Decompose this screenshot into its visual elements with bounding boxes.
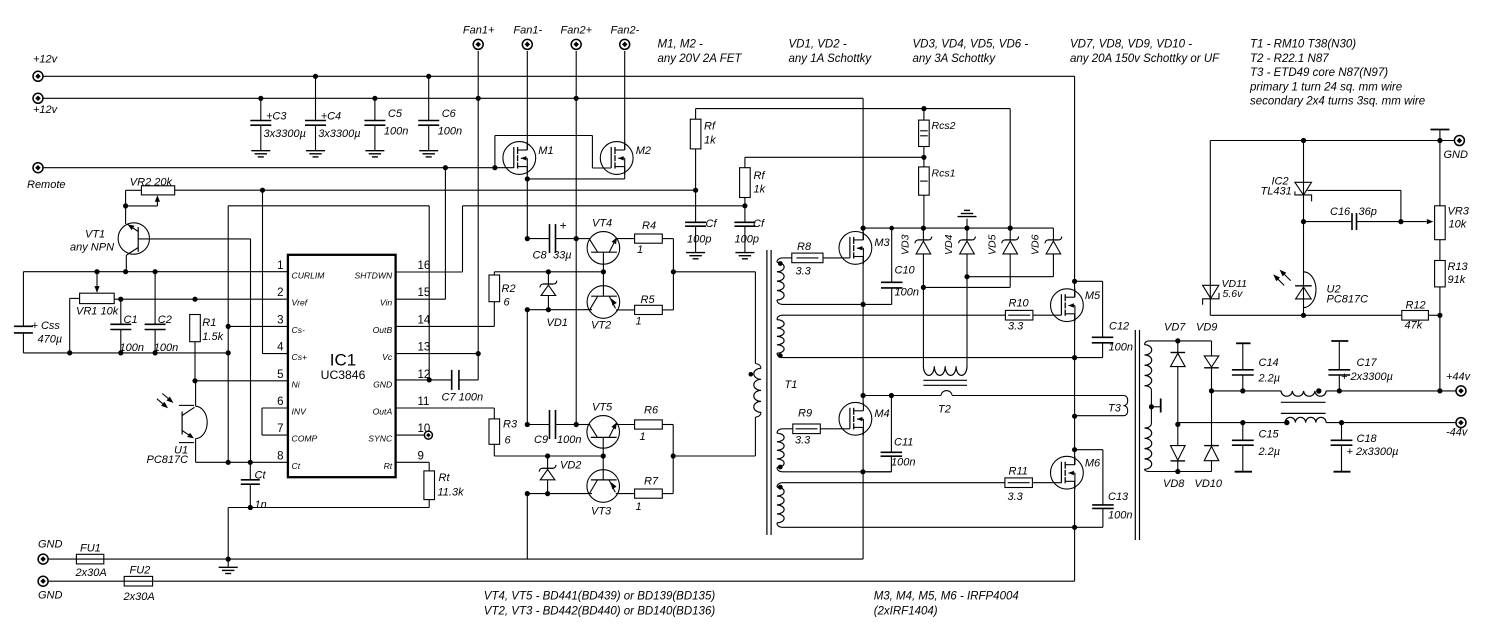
capacitor C9 100n	[549, 410, 551, 439]
svg-text:VR3: VR3	[1448, 206, 1470, 218]
svg-text:1: 1	[636, 316, 642, 328]
wire VD9 cathode	[1211, 368, 1213, 391]
wire Fan1- to M1 drain	[526, 51, 528, 150]
wire M4 source to GND rail	[862, 472, 864, 559]
terminal GND (FU1)	[38, 554, 48, 564]
node VR3 top on top rail	[1437, 138, 1442, 143]
optocoupler U1 PC817C	[195, 381, 197, 407]
wire w3 bottom rail	[782, 471, 891, 473]
svg-text:VD7: VD7	[1164, 322, 1186, 334]
svg-text:R13: R13	[1448, 261, 1469, 273]
wire R10 to M5 gate	[1033, 314, 1062, 316]
svg-text:100n: 100n	[895, 287, 919, 299]
node C14 bottom	[1240, 388, 1245, 393]
wire VR2 wiper	[156, 201, 158, 206]
svg-text:R8: R8	[797, 241, 812, 253]
svg-text:T2 - R22.1 N87: T2 - R22.1 N87	[1250, 53, 1329, 65]
node C8 left (M source)	[525, 236, 530, 241]
node VD1 anode	[546, 307, 551, 312]
svg-text:11: 11	[418, 396, 430, 408]
wire w2 bottom rail (M5 source)	[782, 357, 1103, 359]
wire pin 10 SYNC	[396, 434, 425, 436]
wire C9 right	[556, 424, 577, 426]
diode VD5 (schottky)	[1009, 228, 1011, 240]
capacitor C2 100n	[154, 272, 156, 325]
svg-text:5: 5	[277, 369, 283, 381]
wire driver B output to T1	[673, 455, 755, 457]
svg-text:+: +	[560, 219, 567, 233]
transformer T3 secondary winding (lower half)	[1145, 423, 1152, 428]
diode VD10	[1211, 391, 1213, 446]
node C9 right / VT5 collector	[574, 422, 579, 427]
wire Ni rail (pin 5)	[195, 380, 288, 382]
transistor VT3	[587, 470, 620, 503]
wire VR1 wiper from CURLIM	[96, 272, 98, 292]
svg-text:1k: 1k	[704, 135, 716, 147]
wire M source column to GND rail	[526, 494, 528, 559]
IC IC2 TL431	[1303, 141, 1305, 222]
svg-text:C14: C14	[1259, 357, 1279, 369]
wire Fan2+ drop	[575, 51, 577, 98]
wire M source column down	[526, 179, 528, 239]
svg-text:M2: M2	[636, 145, 651, 157]
svg-text:1: 1	[640, 431, 646, 443]
svg-text:VD4: VD4	[943, 234, 955, 255]
wire R6 right	[662, 424, 673, 426]
inductor L1 (top choke winding)	[1281, 391, 1326, 396]
svg-text:T3: T3	[1108, 403, 1122, 415]
svg-text:C5: C5	[388, 108, 403, 120]
wire M6 source to GND2 rail	[1074, 527, 1076, 581]
svg-text:+ 2x3300µ: + 2x3300µ	[1347, 446, 1399, 458]
diode VD11 zener 5.6v	[1209, 141, 1211, 316]
svg-text:3.3: 3.3	[795, 435, 811, 447]
diode VD9	[1211, 341, 1213, 356]
svg-text:PC817C: PC817C	[1327, 294, 1369, 306]
svg-text:C15: C15	[1259, 429, 1280, 441]
svg-text:C6: C6	[442, 108, 457, 120]
wire VD10 anode	[1211, 461, 1213, 472]
resistor R10 3.3	[1005, 310, 1033, 320]
svg-text:R4: R4	[642, 220, 656, 232]
diode VD1 (schottky)	[547, 272, 549, 284]
svg-text:+C3: +C3	[266, 111, 287, 123]
svg-text:M5: M5	[1085, 290, 1101, 302]
capacitor Ct 1n	[249, 462, 251, 480]
wire VD7 anode	[1177, 367, 1179, 425]
svg-text:6: 6	[277, 396, 283, 408]
transformer T1 secondary winding 4	[777, 483, 782, 487]
node C9 left	[525, 422, 530, 427]
svg-text:any 20A 150v Schottky or UF: any 20A 150v Schottky or UF	[1070, 53, 1220, 65]
resistor R13 91k	[1435, 261, 1446, 287]
diode VD7	[1177, 341, 1179, 353]
svg-text:TL431: TL431	[1261, 186, 1292, 198]
node Rf1 / Cf1	[693, 188, 698, 193]
resistor R6 1	[635, 420, 663, 429]
capacitor C5	[374, 98, 376, 120]
svg-text:M1, M2 -: M1, M2 -	[658, 39, 704, 51]
node M3 source	[861, 302, 866, 307]
node VD8 bottom	[1175, 469, 1180, 474]
capacitor C18 2x3300u	[1341, 423, 1343, 441]
svg-text:VD3: VD3	[900, 234, 912, 255]
resistor Rf 1k (first)	[695, 109, 697, 120]
capacitor C17 2x3300u	[1331, 340, 1348, 342]
capacitor C10 100n	[891, 228, 893, 282]
svg-text:M3: M3	[874, 237, 890, 249]
wire T3 column to M6 drain	[1074, 416, 1076, 450]
svg-text:VD8: VD8	[1163, 478, 1185, 490]
node VD3/VD5 anode rail	[921, 285, 926, 290]
wire T2 primary rail / M4 drain	[863, 395, 941, 397]
transistor M6	[1051, 456, 1084, 489]
node T1 primary phase dot	[749, 372, 754, 377]
svg-text:R10: R10	[1009, 298, 1030, 310]
node M4 drain	[861, 393, 866, 398]
svg-text:FU1: FU1	[80, 543, 101, 555]
diode VD6 (schottky)	[1052, 228, 1054, 240]
svg-text:1: 1	[637, 244, 643, 256]
resistor R12 47k	[1402, 311, 1429, 321]
svg-text:7: 7	[277, 423, 283, 435]
resistor R7 1	[635, 489, 663, 498]
wire R5 right	[662, 309, 673, 311]
svg-text:FU2: FU2	[130, 565, 151, 577]
capacitor Cf 100p (second)	[744, 206, 746, 223]
inductor L2 (bottom choke winding)	[1285, 417, 1326, 422]
resistor Rcs1	[919, 167, 930, 195]
wire VR2 right rail	[175, 189, 696, 191]
svg-text:2.2µ: 2.2µ	[1258, 373, 1281, 385]
transistor M3	[839, 232, 872, 265]
wire +12v top rail	[43, 75, 1074, 77]
svg-text:any 20V 2A FET: any 20V 2A FET	[658, 53, 743, 65]
wire VR3 wiper	[1401, 221, 1427, 223]
node driver A output	[671, 269, 676, 274]
svg-text:1k: 1k	[754, 184, 766, 196]
optocoupler U2 PC817C (LED)	[1295, 285, 1312, 287]
wire VD3 to T2	[922, 254, 924, 366]
svg-text:36p: 36p	[1359, 206, 1377, 218]
svg-text:+ 2x3300µ: + 2x3300µ	[1341, 371, 1393, 383]
capacitor C11 100n	[890, 396, 892, 453]
node soft-start rail to Cs column	[226, 350, 231, 355]
node Rcs2 top	[921, 106, 926, 111]
node C2 on CURLIM rail	[153, 269, 158, 274]
svg-text:IC1: IC1	[330, 351, 356, 370]
svg-text:any 1A Schottky: any 1A Schottky	[789, 53, 873, 65]
svg-text:T2: T2	[938, 404, 951, 416]
node +12v rail junctions	[313, 74, 318, 79]
transistor M2 (fan FET)	[600, 142, 633, 175]
node C15 top	[1240, 420, 1245, 425]
resistor R1 1.5k	[190, 315, 201, 342]
capacitor C12 100n	[1092, 336, 1114, 338]
svg-text:+C4: +C4	[321, 111, 342, 123]
transistor M4	[839, 402, 872, 435]
svg-text:VD10: VD10	[1195, 478, 1223, 490]
resistor R5 1	[635, 305, 663, 314]
svg-text:primary 1 turn 24 sq. mm wire: primary 1 turn 24 sq. mm wire	[1249, 81, 1402, 93]
svg-text:C9: C9	[534, 434, 548, 446]
inductor core	[1281, 401, 1326, 403]
svg-text:10k: 10k	[1449, 219, 1467, 231]
diode VD2 (schottky)	[547, 456, 549, 468]
node Cs column end	[226, 460, 231, 465]
wire base rail A	[494, 271, 603, 273]
transformer T3 secondary winding (upper half)	[1145, 341, 1149, 345]
svg-text:Remote: Remote	[27, 179, 66, 191]
transformer T1 primary winding	[754, 272, 756, 364]
svg-text:VR1 10k: VR1 10k	[76, 306, 119, 318]
svg-text:R5: R5	[641, 294, 656, 306]
transformer T1 secondary winding 2	[777, 315, 782, 319]
wire feedback bottom rail	[1210, 314, 1402, 316]
svg-text:R2: R2	[502, 283, 516, 295]
svg-text:100p: 100p	[735, 234, 759, 246]
wire ground drop to GND rail	[227, 508, 229, 560]
node C16 right / ref	[1398, 219, 1403, 224]
wire Fan1+ drop	[477, 51, 479, 98]
wire Remote rail	[43, 167, 514, 169]
wire C7/GND column	[428, 206, 430, 380]
svg-text:(2xIRF1404): (2xIRF1404)	[874, 606, 938, 618]
wire T3 secondary mid link	[1150, 390, 1152, 423]
svg-text:VD6: VD6	[1030, 234, 1042, 255]
svg-text:VD1: VD1	[547, 317, 568, 329]
svg-text:14: 14	[418, 314, 431, 326]
node C8 right / VT4 collector	[574, 236, 579, 241]
svg-text:C2: C2	[158, 314, 172, 326]
transistor M1 (fan FET)	[503, 142, 536, 175]
svg-text:3.3: 3.3	[1008, 321, 1024, 333]
wire M5 drain to C12	[1075, 280, 1103, 282]
wire C9 left	[527, 424, 549, 426]
svg-text:C7 100n: C7 100n	[442, 392, 484, 404]
svg-text:2x30A: 2x30A	[75, 567, 107, 579]
wire M3 drain stub	[862, 228, 864, 240]
svg-text:M6: M6	[1085, 458, 1101, 470]
wire w4 bottom rail (M6 source)	[782, 526, 1103, 528]
svg-text:R3: R3	[503, 419, 518, 431]
svg-text:VR2 20k: VR2 20k	[130, 177, 173, 189]
wire C8 left	[527, 238, 549, 240]
svg-text:VT2, VT3 - BD442(BD440) or BD1: VT2, VT3 - BD442(BD440) or BD140(BD136)	[484, 606, 716, 618]
svg-text:SHTDWN: SHTDWN	[354, 271, 393, 281]
wire C7 right to Vc	[459, 379, 478, 381]
svg-text:INV: INV	[292, 407, 308, 417]
svg-text:VD5: VD5	[987, 234, 999, 255]
node VD7/VD8 junction (-rail start)	[1175, 422, 1180, 427]
svg-text:4: 4	[277, 342, 284, 354]
wire VR2 left	[126, 189, 142, 191]
svg-text:3.3: 3.3	[1008, 491, 1024, 503]
resistor R2 6	[489, 275, 500, 302]
terminal GND (FU2)	[38, 576, 48, 586]
chassis stub (top rail)	[1439, 130, 1441, 141]
svg-text:OutB: OutB	[373, 325, 393, 335]
svg-text:secondary 2x4 turns 3sq. mm wi: secondary 2x4 turns 3sq. mm wire	[1250, 96, 1425, 108]
svg-text:+12v: +12v	[33, 54, 59, 66]
wire TL431 ref	[1308, 189, 1401, 191]
wire R11 to M6 gate	[1032, 482, 1061, 484]
node Vc +12v	[476, 351, 481, 356]
ground (C3)	[251, 150, 270, 152]
wire w3 top to R9	[782, 428, 793, 430]
svg-text:Ni: Ni	[292, 379, 301, 389]
svg-text:100p: 100p	[687, 234, 711, 246]
wire w4 top to R11	[782, 482, 1005, 484]
potentiometer VR2 20k	[141, 186, 174, 195]
wire R7 right	[662, 493, 673, 495]
svg-text:5.6v: 5.6v	[1223, 288, 1244, 300]
capacitor C3	[260, 98, 262, 120]
svg-text:R12: R12	[1406, 300, 1426, 312]
node VR1 wiper on CURLIM rail	[94, 269, 99, 274]
svg-text:Fan2+: Fan2+	[561, 25, 593, 37]
node VR2 wiper junction	[123, 203, 128, 208]
capacitor C8 33u	[549, 224, 551, 253]
fuse FU1 2x30A	[48, 558, 228, 560]
potentiometer VR3 10k	[1439, 141, 1441, 206]
node M3 drain	[861, 226, 866, 231]
wire C11 bottom corner	[863, 471, 892, 473]
wire VR3 to R13	[1439, 240, 1441, 261]
node M5 drain	[1072, 279, 1077, 284]
svg-text:9: 9	[418, 450, 424, 462]
svg-text:CURLIM: CURLIM	[292, 271, 326, 281]
wire Ct/Rt ground rail	[228, 507, 429, 509]
terminal Fan1-	[522, 39, 532, 49]
wire M5 source stub	[1074, 314, 1076, 358]
wire Rf2 top rail	[745, 156, 923, 158]
svg-text:15: 15	[418, 287, 431, 299]
wire T3 secondary top lead	[1149, 340, 1212, 342]
ground (VD4 cathode rail)	[966, 219, 968, 228]
wire M source column down 2	[526, 310, 528, 425]
node Cs- branch	[226, 324, 231, 329]
svg-text:C1: C1	[124, 314, 138, 326]
resistor Rt 11.3k	[424, 471, 435, 500]
wire +12v second rail	[43, 97, 863, 99]
ground (Cf1)	[686, 252, 705, 254]
ground (Cf2)	[735, 252, 754, 254]
svg-text:VT5: VT5	[592, 402, 613, 414]
svg-text:VD7, VD8, VD9, VD10 -: VD7, VD8, VD9, VD10 -	[1070, 39, 1192, 51]
svg-text:VT3: VT3	[591, 506, 612, 518]
node M6 source	[1072, 525, 1077, 530]
wire VD2 anode rail	[527, 493, 592, 495]
wire pin 12 GND	[396, 379, 452, 381]
svg-text:6: 6	[504, 297, 511, 309]
node T1 w2 phase dot	[778, 353, 783, 358]
node R12/R13 junction	[1437, 313, 1442, 318]
terminal +44v	[1456, 386, 1466, 396]
svg-text:1: 1	[636, 501, 642, 513]
svg-text:-44v: -44v	[1446, 427, 1469, 439]
wire M1/M2 source rail	[527, 178, 624, 180]
svg-text:Cs-: Cs-	[292, 325, 306, 335]
wire Cs column	[227, 206, 229, 463]
svg-text:11.3k: 11.3k	[438, 487, 465, 499]
wire VD rail	[863, 227, 1053, 229]
svg-text:Rf: Rf	[704, 121, 716, 133]
svg-text:1: 1	[277, 260, 283, 272]
wire pin 15 Vin to Remote	[396, 298, 445, 300]
wire T3 center tap	[1151, 406, 1160, 408]
wire pin 3 Cs- stub	[228, 325, 288, 327]
svg-text:VT1: VT1	[85, 229, 105, 241]
svg-text:Rcs1: Rcs1	[932, 168, 956, 180]
svg-text:R1: R1	[202, 317, 216, 329]
wire w1 bottom rail	[782, 303, 892, 305]
svg-text:Cf: Cf	[706, 218, 718, 230]
svg-text:any 3A Schottky: any 3A Schottky	[913, 53, 997, 65]
svg-text:M3, M4, M5, M6 - IRFP4004: M3, M4, M5, M6 - IRFP4004	[874, 591, 1019, 603]
node TL431 cathode on top rail	[1301, 138, 1306, 143]
svg-text:C8: C8	[533, 250, 548, 262]
svg-text:R11: R11	[1009, 466, 1028, 478]
svg-text:Cs+: Cs+	[292, 352, 308, 362]
terminal Fan1+	[473, 39, 483, 49]
transformer T1 secondary winding 3	[777, 429, 782, 433]
wire driver A output to T1	[673, 271, 755, 273]
node U1 collector / R1	[192, 378, 197, 383]
wire VD5 feed column	[1009, 109, 1011, 229]
node VD5 cathode	[1008, 226, 1013, 231]
capacitor C6	[428, 76, 430, 120]
terminal +12v (top)	[33, 71, 43, 81]
node VD7 top	[1175, 338, 1180, 343]
wire T3 secondary bottom lead	[1149, 471, 1212, 473]
transformer T2 core	[923, 379, 967, 381]
node T1 w4 phase dot	[778, 485, 783, 490]
svg-text:any NPN: any NPN	[70, 242, 114, 254]
terminal Fan2+	[571, 39, 581, 49]
fuse FU2 2x30A	[124, 576, 152, 586]
svg-text:3x3300µ: 3x3300µ	[318, 128, 360, 140]
wire R8 to M3 gate	[823, 257, 850, 259]
wire R12 to +44v rail	[1428, 314, 1440, 316]
terminal SYNC	[424, 431, 432, 439]
node Rf2 / Cf2 / rail B	[742, 203, 747, 208]
wire w2 top to R10	[782, 314, 1005, 316]
svg-text:47k: 47k	[1405, 320, 1423, 332]
transistor M5	[1051, 289, 1084, 322]
wire pin 4 Cs+ from VR2 rail	[262, 190, 264, 353]
svg-text:3x3300µ: 3x3300µ	[264, 128, 306, 140]
wire Rf2 bottom	[744, 198, 746, 206]
wire R2 top	[493, 272, 495, 275]
terminal +12v (second)	[33, 93, 43, 103]
wire M6 source stub	[1074, 481, 1076, 527]
wire M3 source column	[862, 257, 864, 305]
svg-text:Rcs2: Rcs2	[932, 120, 956, 132]
svg-text:100n: 100n	[891, 457, 915, 469]
wire slope rail A to C7 column	[228, 205, 429, 207]
wire R4 right	[662, 238, 673, 240]
wire C8 right	[556, 238, 577, 240]
svg-text:100n: 100n	[557, 434, 581, 446]
svg-text:R7: R7	[644, 476, 659, 488]
svg-text:3.3: 3.3	[796, 266, 812, 278]
node R12 column on +44v rail	[1437, 388, 1442, 393]
svg-text:+12v: +12v	[33, 104, 59, 116]
node VD9/VD10 junction (+rail start)	[1209, 388, 1214, 393]
svg-text:VD2: VD2	[560, 460, 581, 472]
resistor Rcs2	[923, 109, 925, 121]
